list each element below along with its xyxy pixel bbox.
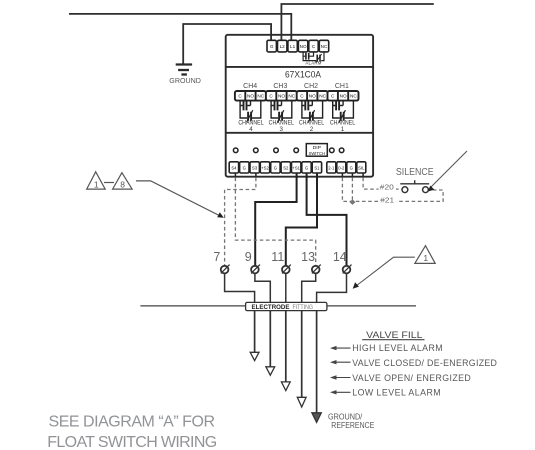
svg-text:G: G [270, 44, 274, 49]
svg-text:67X1C0A: 67X1C0A [285, 69, 322, 79]
svg-text:1: 1 [94, 179, 99, 189]
svg-text:9: 9 [245, 250, 252, 264]
svg-text:S4: S4 [231, 166, 237, 171]
svg-text:CH3: CH3 [273, 83, 287, 90]
svg-text:+S2: +S2 [261, 166, 269, 171]
svg-text:1: 1 [341, 126, 345, 133]
svg-text:VALVE FILL: VALVE FILL [366, 330, 422, 340]
svg-text:+S1: +S1 [292, 166, 300, 171]
svg-text:ALARM: ALARM [305, 61, 321, 66]
svg-text:NO: NO [300, 44, 307, 49]
svg-text:HIGH LEVEL ALARM: HIGH LEVEL ALARM [352, 343, 442, 353]
svg-text:ELECTRODE: ELECTRODE [252, 305, 290, 311]
svg-text:S3: S3 [252, 166, 258, 171]
svg-text:SEE DIAGRAM “A” FOR: SEE DIAGRAM “A” FOR [49, 414, 216, 431]
svg-text:SIL: SIL [358, 166, 365, 171]
svg-text:NO: NO [309, 94, 316, 99]
svg-text:CH1: CH1 [335, 83, 349, 90]
svg-text:VALVE CLOSED/ DE-ENERGIZED: VALVE CLOSED/ DE-ENERGIZED [352, 358, 497, 368]
svg-text:1: 1 [423, 253, 428, 263]
svg-text:C: C [300, 94, 304, 99]
svg-text:NO: NO [340, 94, 347, 99]
svg-text:REFERENCE: REFERENCE [331, 421, 374, 430]
svg-text:LOW LEVEL ALARM: LOW LEVEL ALARM [352, 388, 440, 398]
svg-text:S2: S2 [283, 166, 289, 171]
svg-text:NC: NC [319, 94, 326, 99]
svg-text:#21: #21 [380, 196, 394, 205]
svg-text:L1: L1 [290, 44, 296, 49]
svg-text:14: 14 [333, 250, 347, 264]
svg-text:C: C [331, 94, 335, 99]
svg-text:7: 7 [213, 250, 220, 264]
svg-text:G: G [274, 166, 277, 171]
svg-text:GROUND: GROUND [169, 78, 201, 85]
svg-text:2-1: 2-1 [328, 166, 335, 171]
svg-text:L2: L2 [280, 44, 286, 49]
svg-text:S1: S1 [314, 166, 320, 171]
svg-text:G: G [305, 166, 308, 171]
svg-text:DIP: DIP [313, 145, 321, 150]
svg-text:NC: NC [288, 94, 295, 99]
svg-text:G: G [243, 166, 246, 171]
svg-text:#20: #20 [380, 182, 394, 191]
svg-text:NO: NO [247, 94, 254, 99]
svg-text:VALVE OPEN/ ENERGIZED: VALVE OPEN/ ENERGIZED [352, 373, 471, 383]
svg-text:CH4: CH4 [243, 83, 257, 90]
svg-text:NC: NC [321, 44, 328, 49]
svg-text:2: 2 [310, 126, 314, 133]
svg-text:3: 3 [280, 126, 284, 133]
svg-text:SWITCH: SWITCH [309, 151, 325, 156]
svg-text:GROUND/: GROUND/ [328, 413, 363, 422]
svg-text:SILENCE: SILENCE [396, 167, 434, 178]
svg-text:CH2: CH2 [304, 83, 318, 90]
svg-text:NC: NC [350, 94, 357, 99]
svg-text:NC: NC [257, 94, 264, 99]
svg-text:4: 4 [249, 126, 253, 133]
svg-text:G: G [350, 166, 353, 171]
svg-text:FITTING: FITTING [293, 305, 314, 311]
svg-text:11: 11 [271, 250, 284, 264]
svg-text:FLOAT SWITCH WIRING: FLOAT SWITCH WIRING [47, 434, 217, 450]
svg-text:8: 8 [120, 179, 125, 189]
svg-text:0-2: 0-2 [338, 166, 345, 171]
svg-text:NO: NO [278, 94, 285, 99]
svg-text:13: 13 [301, 250, 315, 264]
